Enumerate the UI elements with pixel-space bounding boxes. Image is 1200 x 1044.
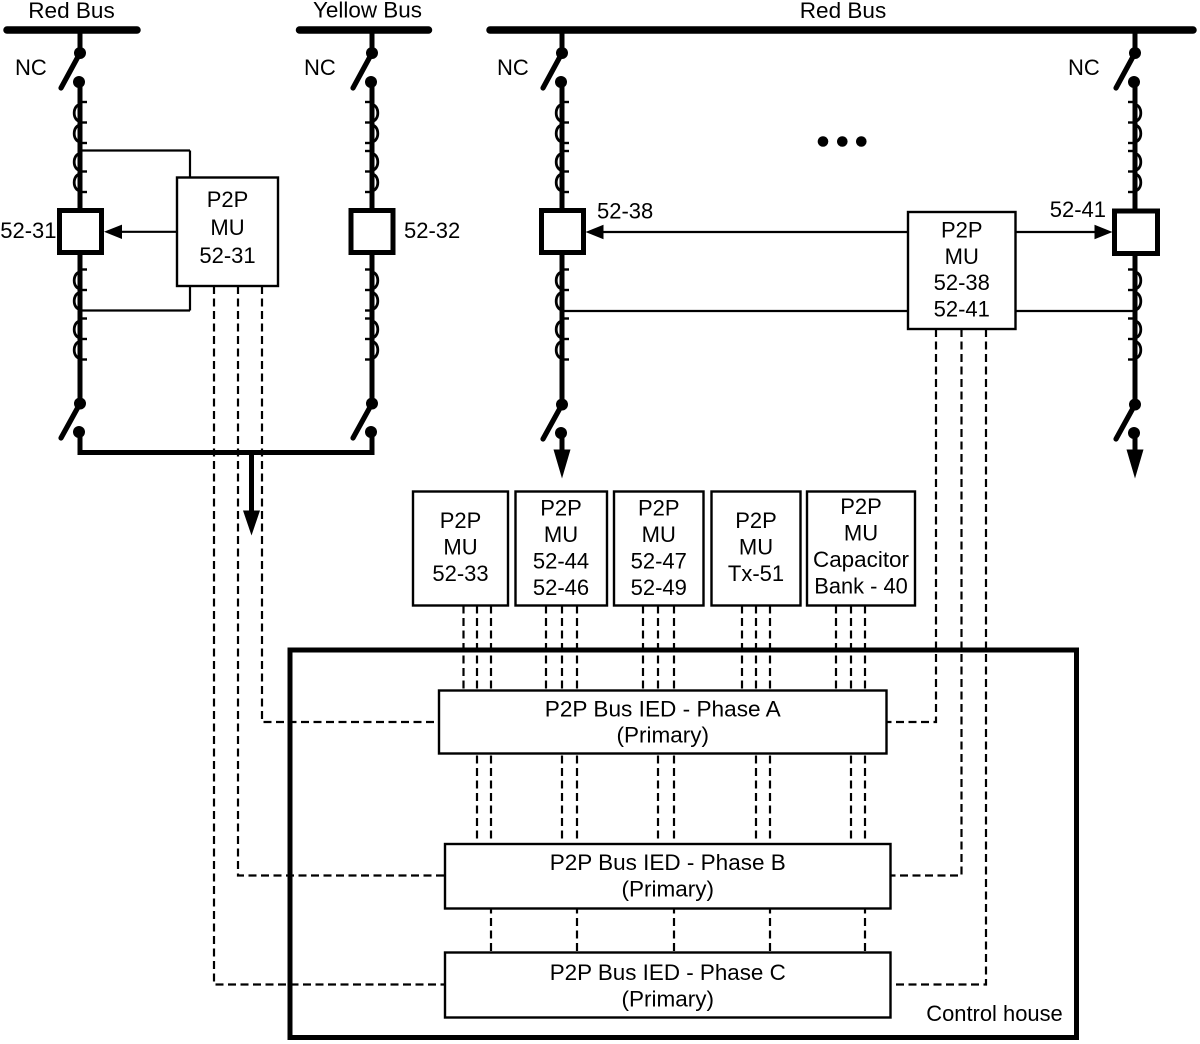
busbar: Yellow Bus	[300, 26, 429, 34]
svg-text:Capacitor: Capacitor	[813, 547, 909, 572]
arrow MU to breaker 52-41	[1016, 225, 1113, 239]
disconnect switch bottom 52-38	[543, 399, 568, 440]
dashed link MU box 4 to Phase B IED	[755, 606, 757, 845]
arrow MU to breaker 52-38	[586, 225, 909, 239]
wire: CT loop right side (to MU 52-31)	[189, 151, 191, 311]
disconnect switch bottom 52-31	[61, 398, 86, 439]
CT lower pair 52-41	[1128, 270, 1141, 360]
svg-text:NC: NC	[15, 55, 47, 80]
svg-text:P2P Bus IED - Phase A: P2P Bus IED - Phase A	[545, 697, 781, 722]
CT lower pair 52-32	[365, 270, 378, 360]
busbar: Red Bus (right)	[490, 26, 1193, 34]
svg-text:P2P: P2P	[941, 218, 983, 243]
svg-text:MU: MU	[844, 521, 878, 546]
breaker 52-38	[542, 211, 584, 253]
dashed link MU box 2 to Phase B IED	[561, 606, 563, 845]
feeder 52-38 main conductor	[560, 82, 565, 405]
svg-text:52-32: 52-32	[404, 218, 460, 243]
dashed link MU box 5 to Phase C IED	[864, 606, 866, 953]
IED box: P2P Bus IED - Phase B (Primary)	[445, 844, 891, 909]
disconnect switch NC 52-38	[543, 47, 568, 88]
svg-text:52-38: 52-38	[597, 199, 653, 224]
svg-text:P2P: P2P	[540, 496, 582, 521]
CT upper pair 52-38	[556, 102, 569, 192]
svg-text:(Primary): (Primary)	[617, 723, 709, 748]
svg-text:(Primary): (Primary)	[622, 876, 714, 901]
svg-text:Red Bus: Red Bus	[800, 0, 887, 23]
svg-text:52-31: 52-31	[0, 218, 56, 243]
svg-text:52-46: 52-46	[533, 575, 589, 600]
dashed link MU 52-38/41 to Phase C IED	[891, 329, 987, 985]
svg-text:P2P: P2P	[638, 496, 680, 521]
dashed link MU box 3 to Phase B IED	[657, 606, 659, 845]
breaker 52-31	[60, 211, 102, 253]
feeder 52-41 load arrow	[1127, 433, 1144, 479]
dashed link MU box 1 to Phase C IED	[490, 606, 492, 953]
disconnect switch NC 52-32	[353, 47, 378, 88]
dashed link MU box 5 to Phase B IED	[850, 606, 852, 845]
svg-text:NC: NC	[1068, 55, 1100, 80]
MU box: P2P MU 52-31	[177, 178, 278, 287]
svg-text:P2P: P2P	[440, 508, 482, 533]
ellipsis dots (more feeders)	[818, 136, 867, 147]
disconnect switch bottom 52-32	[353, 398, 378, 439]
dashed link MU 52-31 to Phase C IED	[214, 286, 445, 985]
svg-text:52-49: 52-49	[631, 575, 687, 600]
svg-text:52-33: 52-33	[432, 561, 488, 586]
svg-text:P2P Bus IED - Phase C: P2P Bus IED - Phase C	[550, 960, 786, 985]
svg-text:52-44: 52-44	[533, 549, 589, 574]
svg-text:NC: NC	[304, 55, 336, 80]
MU box: P2P MU 52-38 52-41	[908, 212, 1016, 329]
svg-text:P2P: P2P	[735, 508, 777, 533]
disconnect switch bottom 52-41	[1116, 399, 1141, 440]
svg-text:MU: MU	[443, 535, 477, 560]
arrow MU 52-31 to breaker	[104, 225, 177, 239]
svg-text:52-31: 52-31	[199, 243, 255, 268]
control house enclosure	[290, 650, 1077, 1038]
CT lower pair 52-38	[556, 270, 569, 360]
IED box: P2P Bus IED - Phase A (Primary)	[439, 691, 887, 754]
feeder 52-32 wire	[370, 30, 375, 50]
svg-text:Red Bus: Red Bus	[28, 0, 115, 23]
dashed link MU box 2 to Phase C IED	[576, 606, 578, 953]
CT tap wire lower 52-31	[80, 309, 190, 311]
CT tap wire 52-41 to MU	[1016, 310, 1136, 312]
dashed link MU box 2 to Phase A IED	[545, 606, 547, 691]
svg-text:P2P Bus IED - Phase B: P2P Bus IED - Phase B	[550, 850, 786, 875]
dashed link MU 52-38/41 to Phase A IED	[887, 329, 937, 722]
MU box: P2P MU Capacitor Bank - 40	[807, 492, 915, 606]
CT upper pair 52-32	[365, 102, 378, 192]
IED box: P2P Bus IED - Phase C (Primary)	[445, 953, 891, 1018]
CT lower pair 52-31	[74, 270, 87, 360]
dashed link MU box 3 to Phase A IED	[642, 606, 644, 691]
dashed link MU 52-31 to Phase A IED	[262, 286, 439, 722]
svg-text:P2P: P2P	[207, 187, 249, 212]
dashed link MU box 4 to Phase A IED	[741, 606, 743, 691]
dashed link MU box 3 to Phase C IED	[673, 606, 675, 953]
svg-text:Tx-51: Tx-51	[728, 561, 784, 586]
disconnect switch NC 52-41	[1116, 47, 1141, 88]
MU box: P2P MU 52-33	[413, 492, 508, 606]
feeder 52-31 main conductor	[78, 82, 83, 404]
svg-text:Bank - 40: Bank - 40	[814, 574, 908, 599]
disconnect switch NC 52-31	[61, 47, 86, 88]
MU box: P2P MU Tx-51	[712, 492, 801, 606]
CT upper pair 52-31	[74, 102, 87, 192]
CT tap wire 52-38 to MU	[562, 310, 908, 312]
feeder 52-38 load arrow	[554, 433, 571, 479]
svg-text:MU: MU	[210, 215, 244, 240]
CT upper pair 52-41	[1128, 102, 1141, 192]
svg-text:P2P: P2P	[840, 494, 882, 519]
svg-text:52-38: 52-38	[934, 270, 990, 295]
dashed link MU box 1 to Phase A IED	[462, 606, 464, 691]
breaker 52-32	[351, 211, 393, 253]
dashed link MU box 4 to Phase C IED	[769, 606, 771, 953]
svg-text:(Primary): (Primary)	[622, 987, 714, 1012]
svg-text:Control house: Control house	[926, 1001, 1063, 1026]
svg-text:MU: MU	[642, 522, 676, 547]
svg-text:MU: MU	[945, 244, 979, 269]
svg-text:Yellow Bus: Yellow Bus	[313, 0, 422, 23]
dashed link MU box 1 to Phase B IED	[476, 606, 478, 845]
busbar: Red Bus (left)	[7, 26, 137, 34]
svg-text:NC: NC	[497, 55, 529, 80]
svg-text:52-41: 52-41	[934, 296, 990, 321]
dashed link MU 52-31 to Phase B IED	[238, 286, 445, 876]
svg-text:MU: MU	[544, 522, 578, 547]
svg-text:MU: MU	[739, 535, 773, 560]
feeder 52-31 wire	[78, 30, 83, 50]
svg-text:52-41: 52-41	[1050, 197, 1106, 222]
dashed link MU 52-38/41 to Phase B IED	[891, 329, 962, 876]
feeder 52-41 wire	[1133, 30, 1138, 50]
feeder 52-41 main conductor	[1133, 82, 1138, 405]
MU box: P2P MU 52-47 52-49	[614, 492, 704, 606]
feeder tie rail 52-31/52-32	[80, 432, 372, 453]
dashed link MU box 5 to Phase A IED	[835, 606, 837, 691]
breaker 52-41	[1115, 211, 1158, 254]
feeder 52-32 main conductor	[370, 82, 375, 404]
feeder 52-38 wire	[560, 30, 565, 50]
MU box: P2P MU 52-44 52-46	[516, 492, 608, 606]
svg-text:52-47: 52-47	[631, 549, 687, 574]
CT tap wire upper 52-31	[80, 149, 190, 151]
load arrow on tie rail	[243, 453, 260, 536]
